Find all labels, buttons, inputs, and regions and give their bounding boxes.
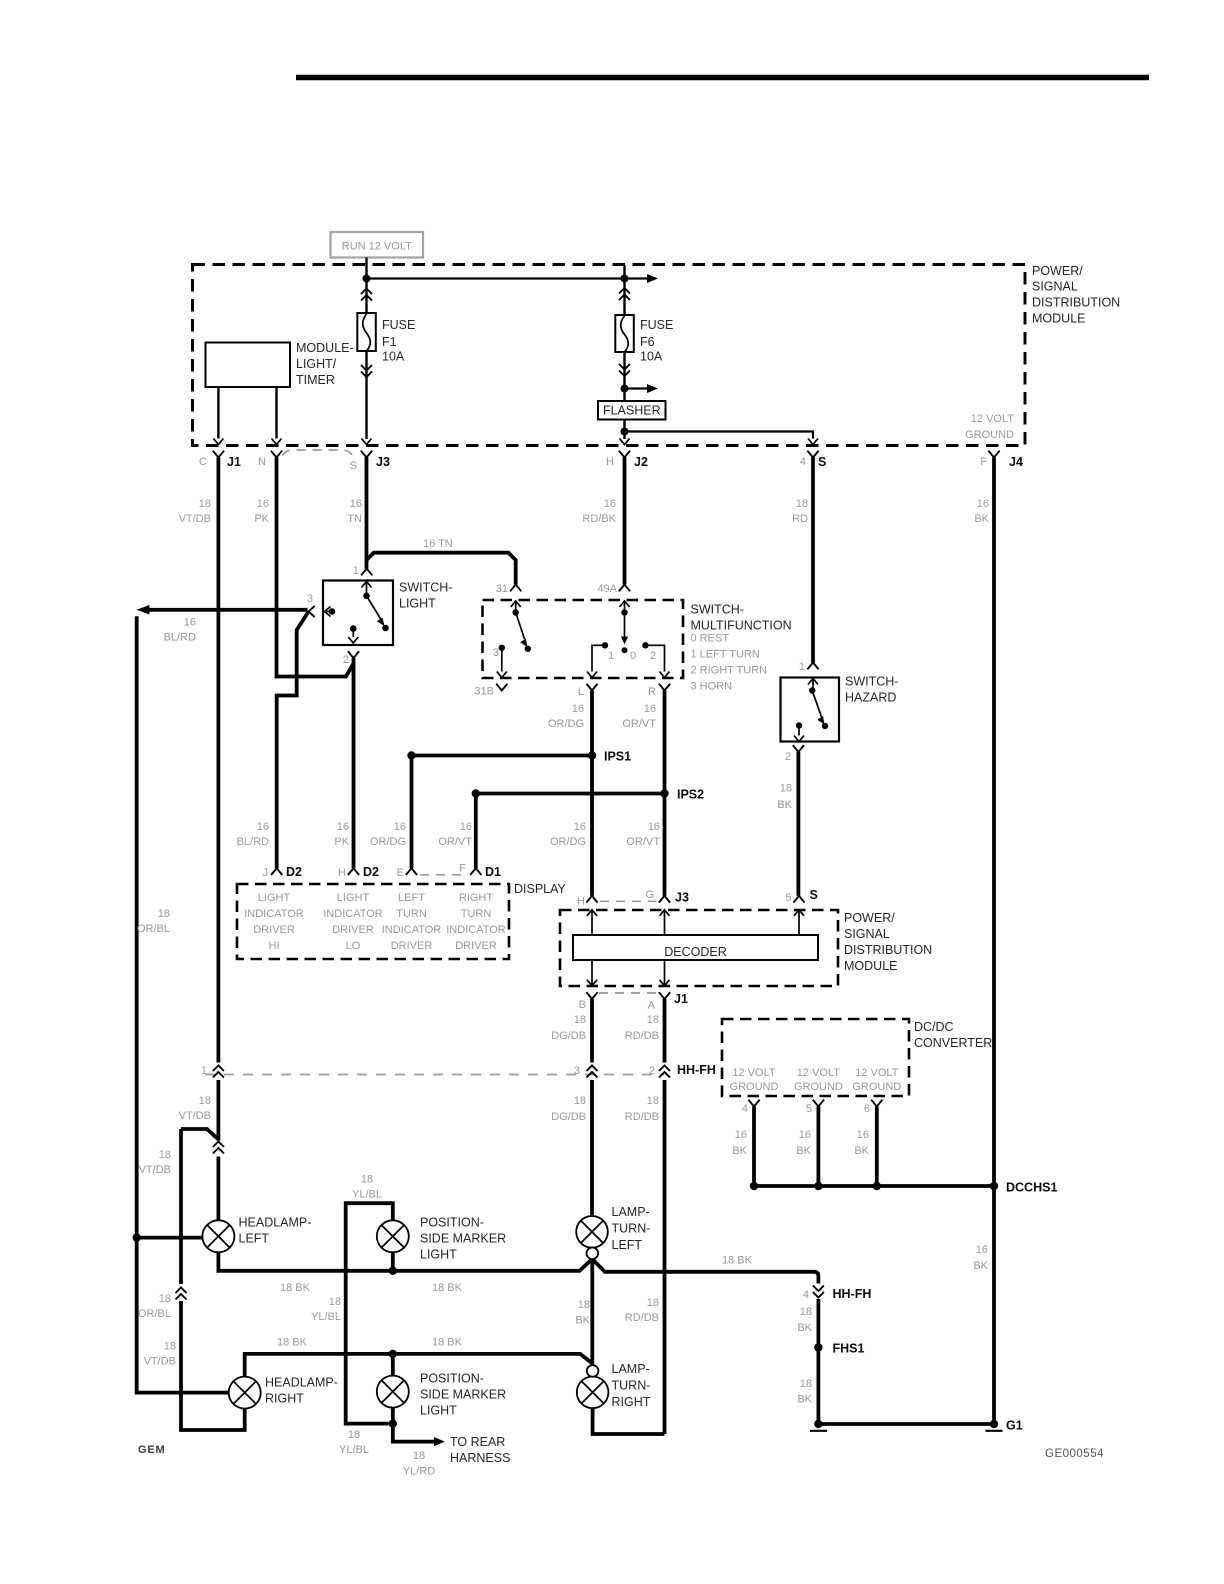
wire YL/BL feed (346, 1203, 393, 1423)
position-side marker light E5 (bottom) (377, 1372, 506, 1418)
svg-text:18: 18 (329, 1296, 341, 1308)
fuse F6 10A (615, 315, 673, 364)
svg-text:HAZARD: HAZARD (845, 691, 896, 705)
wire L to J3-H (590, 691, 594, 896)
ground G1 (986, 1419, 1023, 1433)
wire B/J1 to lamp-turn-left (590, 999, 594, 1216)
svg-text:18 BK: 18 BK (722, 1255, 753, 1267)
multifunction contact 3 (horn) (493, 645, 507, 678)
label GE000554 (1045, 1448, 1104, 1460)
headlamp-right E4 (229, 1376, 338, 1409)
svg-text:SIGNAL: SIGNAL (844, 927, 890, 941)
connector chevrons above F1 (361, 289, 372, 301)
svg-text:49A: 49A (597, 583, 617, 595)
switch-light pin 1 (353, 565, 372, 577)
svg-text:10A: 10A (382, 350, 405, 364)
wire turn-left ground down (590, 1259, 594, 1366)
svg-text:F6: F6 (640, 335, 655, 349)
svg-text:BK: BK (777, 799, 792, 811)
multifunction terminal 31 (511, 601, 521, 616)
svg-text:18: 18 (647, 1095, 659, 1107)
connector D1 pin F (459, 863, 501, 880)
connector HH-FH pin 1 (201, 1065, 224, 1078)
svg-text:2: 2 (785, 751, 791, 763)
label 16 PK (H) (334, 821, 349, 848)
svg-text:CONVERTER: CONVERTER (914, 1036, 992, 1050)
dc/dc ground text 1 (730, 1067, 779, 1093)
power/signal distribution module U-PSDM1 (dashed box) (193, 265, 1026, 446)
svg-text:SWITCH-: SWITCH- (845, 675, 898, 689)
junction dot marker-bottom top (389, 1350, 397, 1358)
headlamp-left E1 (202, 1216, 311, 1253)
svg-text:RD/BK: RD/BK (582, 513, 616, 525)
connector pin 49A (597, 583, 630, 595)
svg-text:16: 16 (644, 703, 656, 715)
svg-text:H: H (577, 896, 585, 908)
svg-text:LIGHT/: LIGHT/ (296, 357, 337, 371)
arrow into module edge S (362, 439, 372, 445)
switch-light blade (367, 596, 389, 632)
svg-text:POSITION-: POSITION- (420, 1216, 484, 1230)
junction dot gnd6 (873, 1182, 881, 1190)
multifunction selector arrow (621, 613, 636, 663)
svg-text:5: 5 (806, 1103, 812, 1115)
wire 4S 18RD to hazard (811, 458, 815, 663)
junction dot gnd4 (750, 1182, 758, 1190)
svg-text:0: 0 (630, 650, 636, 662)
decoder input G (660, 910, 670, 935)
hazard blade (812, 691, 828, 730)
connector D2 pin J (263, 865, 303, 879)
wire to rear harness (393, 1424, 445, 1447)
label 16 OR/DG (L) (548, 703, 584, 730)
svg-text:FUSE: FUSE (382, 318, 415, 332)
wire switch-light pin2 to H/D2 (352, 658, 356, 868)
svg-text:FLASHER: FLASHER (603, 404, 661, 418)
svg-text:DECODER: DECODER (664, 945, 727, 959)
svg-text:3: 3 (307, 593, 313, 605)
svg-text:18: 18 (647, 1297, 659, 1309)
label 16 OR/DG (J3-H) (550, 821, 586, 848)
svg-text:VT/DB: VT/DB (144, 1356, 176, 1368)
svg-text:BK: BK (974, 513, 989, 525)
svg-text:G: G (645, 889, 654, 901)
label 18 RD/DB (A) (625, 1014, 659, 1042)
svg-text:BL/RD: BL/RD (237, 836, 269, 848)
connector D1 pin E (397, 867, 417, 879)
display driver hi text (244, 892, 304, 952)
branch arrow at flasher feed (625, 384, 659, 393)
label 18 DG/DB (below HH-FH3) (551, 1095, 586, 1123)
connector hazard pin 2 (785, 745, 804, 763)
junction dot marker-top (389, 1267, 397, 1275)
wire ground bus G1 (818, 1422, 994, 1426)
connector chevrons VT/DB-1 (213, 1142, 224, 1154)
svg-text:N: N (258, 456, 266, 468)
connector chevrons below F1 (361, 365, 372, 377)
svg-text:INDICATOR: INDICATOR (446, 924, 506, 936)
wire F6 from bus (623, 265, 625, 315)
wire dc/dc gnd 6 (875, 1107, 879, 1187)
svg-text:MODULE: MODULE (1032, 312, 1085, 326)
label 18 YL/RD (403, 1450, 435, 1478)
svg-text:TURN: TURN (461, 908, 492, 920)
multifunction horn blade (516, 613, 531, 653)
svg-text:GROUND: GROUND (965, 429, 1014, 441)
svg-text:MODULE-: MODULE- (296, 341, 354, 355)
svg-text:18: 18 (800, 1306, 812, 1318)
svg-text:2 RIGHT TURN: 2 RIGHT TURN (691, 665, 768, 677)
wire turn-left ground right (592, 1259, 818, 1284)
svg-text:YL/BL: YL/BL (339, 1444, 369, 1456)
display right turn text (446, 892, 506, 952)
svg-text:18 BK: 18 BK (432, 1282, 463, 1294)
connector J3 pin S (350, 451, 390, 472)
svg-text:DRIVER: DRIVER (253, 924, 295, 936)
svg-text:POWER/: POWER/ (844, 911, 895, 925)
svg-text:GEM: GEM (138, 1444, 165, 1456)
svg-text:GROUND: GROUND (794, 1081, 843, 1093)
svg-text:SIGNAL: SIGNAL (1032, 280, 1078, 294)
lamp-turn-right E6 (577, 1362, 651, 1409)
label 16 RD/BK (H) (582, 498, 616, 525)
connector J1 pin A (648, 992, 688, 1012)
connector J2 pin 4-S (800, 451, 826, 469)
svg-text:S: S (818, 455, 826, 469)
svg-text:LEFT: LEFT (398, 892, 425, 904)
connector J3 pin H (577, 896, 598, 908)
connector J3 pin G (645, 889, 689, 905)
label 18 VT/DB (jog) (139, 1149, 171, 1176)
svg-text:A: A (648, 1000, 656, 1012)
dc/dc converter U5 (dashed box) (722, 1019, 992, 1096)
svg-text:L: L (578, 686, 584, 698)
label 18 YL/BL (top) (352, 1174, 382, 1201)
svg-text:C: C (199, 456, 207, 468)
svg-text:HARNESS: HARNESS (450, 1451, 510, 1465)
svg-text:LIGHT: LIGHT (420, 1404, 457, 1418)
svg-text:18: 18 (159, 1149, 171, 1161)
module-light/timer U1 (206, 341, 354, 387)
svg-text:LO: LO (346, 940, 361, 952)
svg-text:DG/DB: DG/DB (551, 1111, 586, 1123)
wire marker-top ground stub (391, 1252, 395, 1270)
svg-text:18: 18 (574, 1095, 586, 1107)
wire dc/dc gnd 5 (817, 1107, 821, 1187)
svg-text:S: S (810, 888, 818, 902)
svg-text:F: F (980, 456, 987, 468)
svg-text:B: B (579, 999, 586, 1011)
connector J1 pin B (579, 992, 598, 1011)
svg-text:16: 16 (337, 821, 349, 833)
connector pin L (578, 684, 598, 698)
wire 18BK lower bus (245, 1354, 593, 1377)
svg-text:PK: PK (254, 513, 269, 525)
svg-text:16: 16 (460, 821, 472, 833)
wire 18VT-DB jog to headlamp-right (181, 1129, 245, 1430)
svg-text:TN: TN (347, 513, 362, 525)
connector J1 pin C (199, 451, 241, 469)
wire turn-right to RD/DB (593, 1408, 665, 1434)
dc/dc ground text 2 (794, 1067, 843, 1093)
wire headlamp-left ground (218, 1252, 592, 1270)
svg-text:INDICATOR: INDICATOR (382, 924, 442, 936)
label 18 BK (marker2) (432, 1337, 463, 1349)
svg-text:BK: BK (973, 1260, 988, 1272)
label 18 BK (hazard) (777, 783, 792, 812)
svg-text:LIGHT: LIGHT (420, 1248, 457, 1262)
junction dot IPS2 left (472, 789, 480, 797)
connector HH-FH pin 4 (803, 1286, 872, 1302)
svg-text:3: 3 (493, 647, 499, 659)
svg-text:4: 4 (742, 1103, 748, 1115)
svg-text:31: 31 (496, 583, 508, 595)
label HH-FH (677, 1063, 716, 1077)
wire 18OR-BL left drop (137, 616, 229, 1392)
label 18 YL/BL (mid) (311, 1296, 341, 1323)
svg-text:18: 18 (647, 1014, 659, 1026)
connector HH-FH pin 3 (574, 1065, 598, 1078)
svg-text:LIGHT: LIGHT (399, 597, 436, 611)
svg-text:LAMP-: LAMP- (612, 1362, 650, 1376)
label 16 PK (N) (254, 498, 269, 525)
wire module pin C (213, 387, 223, 445)
svg-text:POSITION-: POSITION- (420, 1372, 484, 1386)
svg-text:E: E (397, 867, 404, 879)
wire S/J3 16TN down (365, 458, 369, 569)
label 18 BK (fhs lower) (797, 1378, 812, 1406)
label 16 BK (5) (796, 1129, 811, 1157)
wire H/J2 16RD-BK to 49A (623, 458, 627, 585)
wire hazard to J3-5S (797, 752, 801, 896)
label 18 OR/BL (lower) (138, 1293, 171, 1320)
svg-text:SWITCH-: SWITCH- (691, 603, 744, 617)
svg-text:OR/VT: OR/VT (626, 836, 660, 848)
svg-text:12 VOLT: 12 VOLT (732, 1067, 775, 1079)
connector J4 pin F (980, 451, 1023, 469)
multifunction terminal 49A (620, 601, 630, 616)
switch-light pin 3 (307, 593, 315, 617)
svg-text:D2: D2 (286, 865, 302, 879)
svg-text:BK: BK (797, 1322, 812, 1334)
connector chevrons above F6 (619, 288, 630, 300)
junction dot flasher feed (621, 385, 629, 393)
svg-text:12 VOLT: 12 VOLT (971, 413, 1014, 425)
hazard terminal 2 (794, 722, 804, 741)
wire OR/BL to headlamp-left (137, 1236, 203, 1240)
svg-text:18: 18 (361, 1174, 373, 1186)
switch-light pin3 terminal (325, 607, 336, 617)
connector bridge J1-BA (599, 992, 657, 994)
svg-text:16: 16 (648, 821, 660, 833)
wire RUN feed to fuse F1 (365, 258, 367, 314)
svg-text:OR/DG: OR/DG (370, 836, 406, 848)
display driver lo text (323, 892, 383, 952)
label DCCHS1 (1006, 1181, 1057, 1195)
svg-text:TO REAR: TO REAR (450, 1435, 505, 1449)
connector HH-FH pin 2 (649, 1065, 670, 1078)
svg-text:GE000554: GE000554 (1045, 1448, 1104, 1460)
dc/dc ground text 3 (852, 1067, 901, 1093)
svg-text:SWITCH-: SWITCH- (399, 581, 452, 595)
svg-text:TURN-: TURN- (612, 1222, 651, 1236)
junction dot marker-bottom (389, 1419, 397, 1427)
svg-text:OR/VT: OR/VT (438, 836, 472, 848)
wire F/J4 16BK down to G1 (992, 458, 996, 1425)
arrow into module edge S4 (808, 439, 818, 445)
svg-text:12 VOLT: 12 VOLT (797, 1067, 840, 1079)
svg-text:TURN: TURN (396, 908, 427, 920)
connector bridge D1 (420, 874, 467, 876)
svg-text:H: H (338, 867, 346, 879)
svg-text:FHS1: FHS1 (833, 1342, 865, 1356)
label 18 YL/BL (bottom) (339, 1429, 369, 1456)
ground FHS1 dot (810, 1420, 827, 1431)
svg-text:31B: 31B (474, 686, 494, 698)
junction dot DCCHS1 (990, 1182, 998, 1190)
svg-text:IPS1: IPS1 (604, 750, 631, 764)
connector dc/dc pin 4 (742, 1100, 760, 1115)
svg-text:DISTRIBUTION: DISTRIBUTION (844, 943, 932, 957)
svg-text:16: 16 (184, 617, 196, 629)
switch-hazard S3 box (781, 675, 899, 742)
wire IPS2 splice (476, 792, 665, 796)
decoder input H (587, 910, 597, 935)
arrow into module edge H (620, 439, 630, 445)
label 16 OR/DG (E) (370, 821, 406, 848)
page top rule (296, 75, 1149, 81)
svg-text:OR/DG: OR/DG (548, 718, 584, 730)
svg-text:HH-FH: HH-FH (677, 1063, 716, 1077)
svg-text:16: 16 (735, 1129, 747, 1141)
svg-text:LAMP-: LAMP- (612, 1205, 650, 1219)
svg-text:16: 16 (799, 1129, 811, 1141)
svg-text:GROUND: GROUND (730, 1081, 779, 1093)
svg-text:RD/DB: RD/DB (625, 1312, 659, 1324)
lamp-turn-right terminal circle (587, 1365, 599, 1377)
svg-text:DRIVER: DRIVER (332, 924, 374, 936)
svg-text:YL/RD: YL/RD (403, 1466, 435, 1478)
svg-text:RIGHT: RIGHT (612, 1395, 651, 1409)
svg-text:BK: BK (854, 1145, 869, 1157)
junction dot IPS1 left (407, 751, 415, 759)
svg-text:DG/DB: DG/DB (551, 1030, 586, 1042)
wire splice DCCHS1 bus (754, 1184, 994, 1188)
svg-text:HEADLAMP-: HEADLAMP- (265, 1376, 338, 1390)
svg-text:HEADLAMP-: HEADLAMP- (239, 1216, 312, 1230)
svg-text:5: 5 (785, 892, 791, 904)
svg-text:0 REST: 0 REST (691, 633, 730, 645)
svg-text:LEFT: LEFT (239, 1232, 270, 1246)
wire N/J3 16PK to switch-light pin2 (277, 458, 354, 677)
svg-text:DISTRIBUTION: DISTRIBUTION (1032, 296, 1120, 310)
svg-text:J1: J1 (227, 455, 241, 469)
svg-text:BL/RD: BL/RD (164, 632, 196, 644)
hazard terminal 1 (808, 679, 818, 694)
connector pin R (648, 684, 670, 698)
connector dc/dc pin 6 (864, 1100, 883, 1115)
svg-text:VT/DB: VT/DB (179, 513, 211, 525)
svg-text:16: 16 (394, 821, 406, 833)
svg-text:R: R (648, 686, 656, 698)
svg-text:S: S (350, 460, 357, 472)
decoder input S (794, 910, 804, 935)
svg-text:LEFT: LEFT (612, 1238, 643, 1252)
wire switch-light pin3 to J/D2 (277, 612, 309, 869)
wire F6 to flasher (623, 352, 625, 401)
label 16 BL/RD (164, 617, 196, 644)
label PSDM1 (1032, 264, 1120, 326)
svg-text:J4: J4 (1009, 455, 1023, 469)
switch-light pin 2 (343, 651, 359, 666)
label 18 RD/DB (below HH-FH2) (625, 1095, 659, 1123)
wire flasher out to S-4 (625, 432, 814, 439)
svg-text:18: 18 (780, 783, 792, 795)
power/signal distribution module U-PSDM2 (dashed box) (560, 910, 838, 986)
connector bridge J3 (283, 450, 353, 456)
label 16 BK (J4) (973, 1244, 988, 1272)
svg-text:RD: RD (792, 513, 808, 525)
svg-text:10A: 10A (640, 350, 663, 364)
label 16 BK (F) (974, 498, 989, 525)
svg-text:RD/DB: RD/DB (625, 1030, 659, 1042)
label GEM (138, 1444, 165, 1456)
svg-text:18: 18 (578, 1299, 590, 1311)
switch-light S1 box (323, 581, 452, 646)
svg-text:H: H (606, 456, 614, 468)
svg-text:2: 2 (649, 1065, 655, 1077)
svg-text:18 BK: 18 BK (432, 1337, 463, 1349)
fuse F1 10A (357, 313, 415, 364)
label 18 BK (turn-left) (575, 1299, 590, 1327)
label 16 OR/VT (R) (622, 703, 656, 730)
svg-text:MODULE: MODULE (844, 959, 897, 973)
wire flasher to J2-H (623, 420, 625, 440)
svg-text:VT/DB: VT/DB (139, 1164, 171, 1176)
svg-text:OR/BL: OR/BL (137, 923, 170, 935)
svg-text:16: 16 (574, 821, 586, 833)
svg-text:YL/BL: YL/BL (311, 1311, 341, 1323)
label 16 BK (6) (854, 1129, 869, 1157)
decoder output A (660, 960, 670, 986)
svg-text:16 TN: 16 TN (423, 538, 453, 550)
label 18 OR/BL (upper) (137, 908, 170, 935)
multifunction contact 2 (right) (642, 642, 669, 677)
wire A/J1 to lamp-turn-right (663, 999, 667, 1434)
svg-text:16: 16 (604, 498, 616, 510)
svg-text:BK: BK (796, 1145, 811, 1157)
label 16 BL/RD (J) (237, 821, 269, 848)
label 18 BK (right) (722, 1255, 753, 1267)
lamp-turn-left E3 (576, 1205, 650, 1252)
svg-text:16: 16 (257, 821, 269, 833)
svg-text:RIGHT: RIGHT (265, 1392, 304, 1406)
svg-text:OR/BL: OR/BL (138, 1308, 171, 1320)
lamp-turn-left terminal circle (587, 1248, 599, 1260)
label IPS2 (677, 788, 704, 802)
svg-text:HI: HI (269, 940, 280, 952)
svg-text:16: 16 (976, 1244, 988, 1256)
svg-text:D1: D1 (485, 865, 501, 879)
svg-text:18 BK: 18 BK (277, 1337, 308, 1349)
label 16 TN (S) (347, 498, 362, 525)
svg-text:TIMER: TIMER (296, 373, 335, 387)
svg-text:F1: F1 (382, 335, 397, 349)
junction dot flasher out (621, 428, 629, 436)
wire marker-bottom ground stub (391, 1408, 395, 1424)
svg-text:RIGHT: RIGHT (459, 892, 494, 904)
svg-text:16: 16 (857, 1129, 869, 1141)
